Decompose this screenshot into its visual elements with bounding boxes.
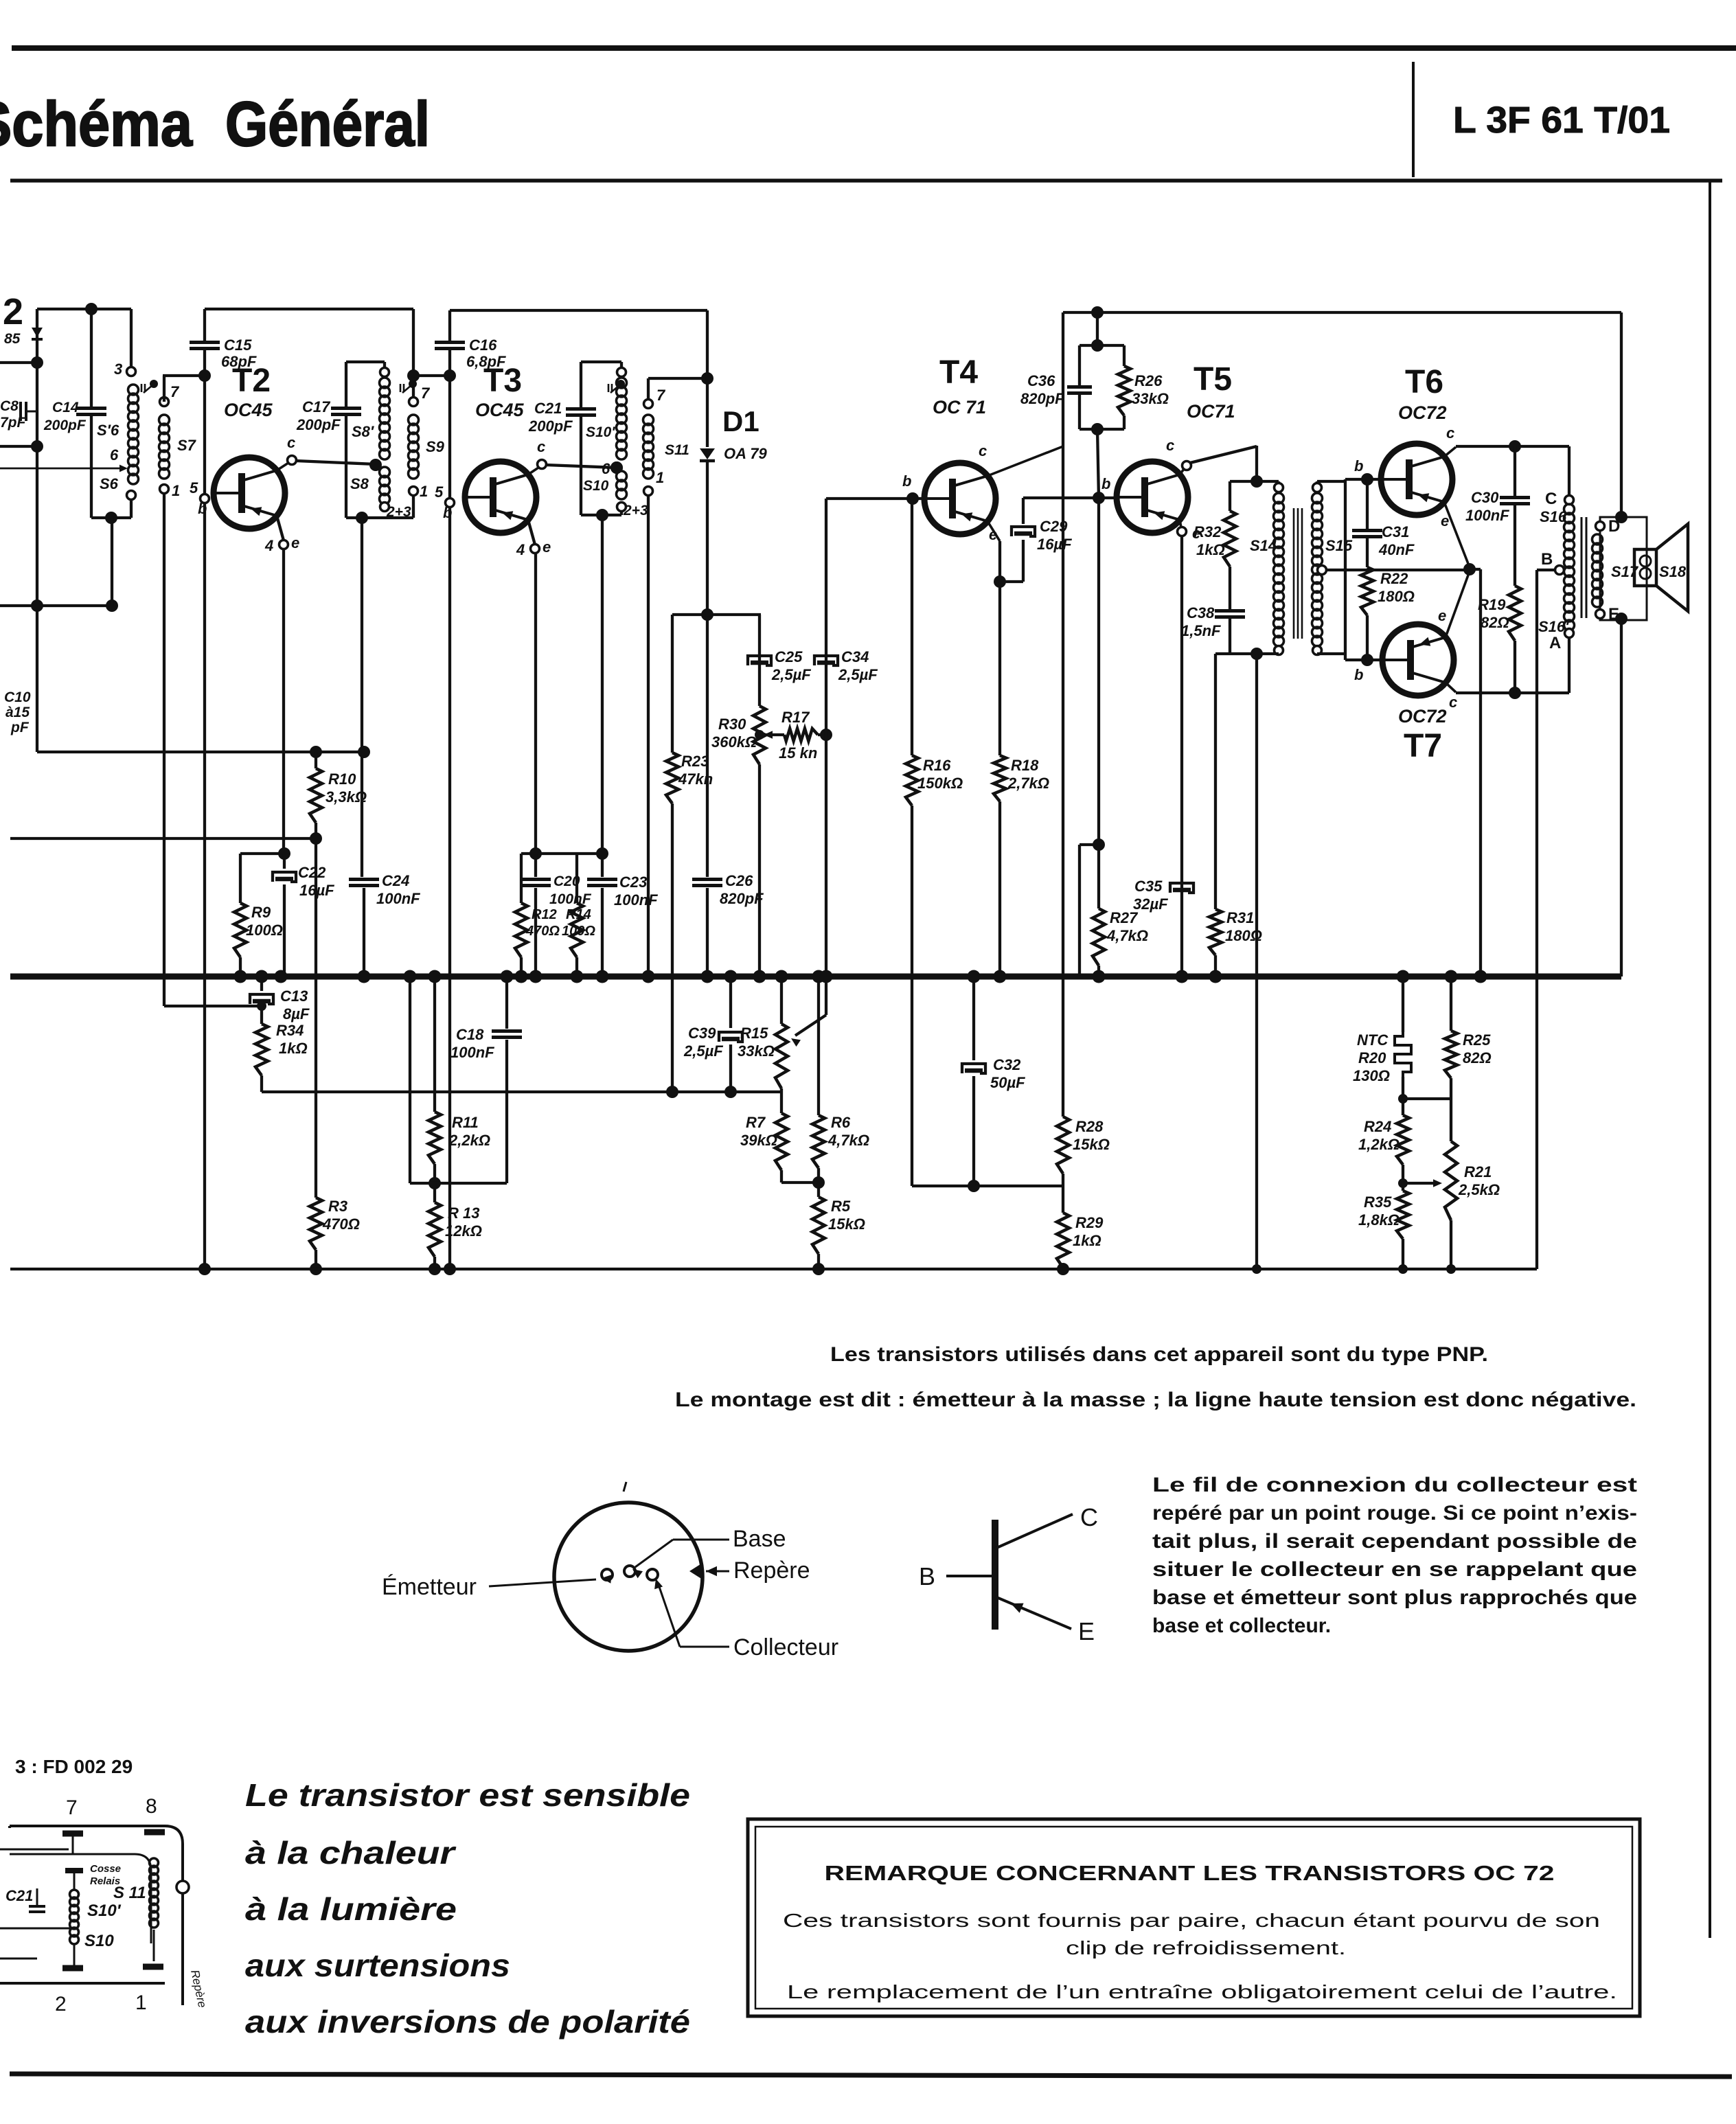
svg-text:130Ω: 130Ω (1353, 1067, 1390, 1084)
svg-text:1kΩ: 1kΩ (279, 1040, 308, 1057)
svg-text:C30: C30 (1471, 489, 1499, 506)
potentiometer R15 (780, 977, 783, 1024)
wiper arrow R21 (1403, 1182, 1437, 1185)
svg-text:c: c (1446, 424, 1454, 442)
svg-text:R15: R15 (740, 1025, 768, 1042)
svg-text:C21: C21 (5, 1887, 33, 1904)
svg-text:L 3F 61 T/01: L 3F 61 T/01 (1453, 100, 1670, 141)
svg-text:T7: T7 (1404, 728, 1442, 764)
svg-text:100nF: 100nF (376, 890, 420, 907)
svg-text:R31: R31 (1226, 909, 1254, 926)
wire emitter return (1470, 568, 1481, 571)
fragment inner outline (10, 1854, 151, 1943)
pinout pin emitter (602, 1569, 613, 1580)
svg-text:clip de refroidissement.: clip de refroidissement. (1066, 1937, 1346, 1959)
svg-text:16µF: 16µF (299, 882, 334, 899)
wire E drop (1615, 613, 1627, 625)
svg-text:S′6: S′6 (97, 422, 119, 439)
svg-text:100Ω: 100Ω (246, 922, 283, 939)
tuning slug S9 (400, 384, 402, 392)
svg-text:R19: R19 (1478, 596, 1506, 613)
symbol transistor B C E (992, 1520, 998, 1630)
svg-text:tait plus, il serait cependant: tait plus, il serait cependant possible … (1152, 1530, 1637, 1553)
svg-text:à15: à15 (5, 705, 30, 720)
svg-text:2,7kΩ: 2,7kΩ (1007, 775, 1049, 792)
wire y1221 (10, 837, 316, 840)
wire S8 box bottom (346, 516, 413, 519)
svg-text:R3: R3 (328, 1198, 347, 1215)
svg-text:S16′: S16′ (1538, 618, 1570, 635)
wire tap 6 arrow (0, 468, 124, 470)
svg-text:S10′: S10′ (87, 1902, 122, 1920)
svg-text:15 kn: 15 kn (779, 744, 817, 762)
resistor R7 (780, 1088, 783, 1113)
wire AGC y882 (0, 604, 112, 607)
wire S16 tap B (1555, 566, 1564, 575)
wire T7 collector (1446, 683, 1456, 692)
resistor R24 (1397, 1115, 1409, 1165)
svg-text:C26: C26 (725, 872, 753, 889)
svg-text:b: b (1354, 666, 1363, 683)
svg-text:1kΩ: 1kΩ (1196, 541, 1225, 558)
svg-text:C15: C15 (224, 336, 252, 354)
svg-text:C21: C21 (534, 400, 562, 417)
wire S10 box bottom (581, 514, 621, 516)
svg-text:Le transistor est sensible: Le transistor est sensible (245, 1777, 690, 1813)
resistor R29 (1062, 1186, 1064, 1213)
capacitor C15 (203, 309, 206, 341)
svg-text:C14: C14 (52, 400, 79, 415)
svg-text:2: 2 (55, 1993, 67, 2015)
coil S14 (1275, 483, 1283, 492)
svg-text:R5: R5 (831, 1198, 851, 1215)
fragment left wires (0, 1849, 69, 1851)
svg-text:R35: R35 (1364, 1194, 1392, 1211)
svg-text:1,2kΩ: 1,2kΩ (1358, 1136, 1400, 1153)
node T3 base (448, 376, 451, 497)
svg-text:R30: R30 (718, 716, 746, 733)
svg-text:Général: Général (225, 89, 430, 159)
svg-text:c: c (1166, 437, 1174, 454)
svg-text:pF: pF (10, 720, 30, 735)
node T3 collector (528, 468, 538, 475)
svg-text:2,5µF: 2,5µF (771, 666, 811, 683)
wire R9-C22 stub (240, 852, 284, 855)
svg-text:e: e (542, 538, 551, 556)
svg-text:e: e (1441, 512, 1449, 529)
svg-text:5: 5 (190, 479, 198, 496)
svg-text:R23: R23 (681, 753, 709, 770)
svg-text:7: 7 (421, 385, 431, 402)
svg-text:R11: R11 (452, 1114, 479, 1131)
node T2 base (203, 376, 206, 493)
svg-text:REMARQUE CONCERNANT LES TRANSI: REMARQUE CONCERNANT LES TRANSISTORS OC 7… (825, 1861, 1555, 1885)
svg-text:2+3: 2+3 (623, 503, 648, 518)
svg-text:2: 2 (3, 291, 23, 332)
svg-text:R6: R6 (831, 1114, 851, 1131)
svg-text:2,5µF: 2,5µF (838, 666, 878, 683)
capacitor C21 (581, 361, 621, 363)
resistor R22 (1361, 567, 1373, 615)
wire T2 base stub (163, 374, 205, 377)
capacitor C34 (814, 656, 838, 665)
wire left y528 (0, 361, 37, 364)
wire T2 emitter return (282, 549, 285, 854)
svg-text:b: b (1354, 457, 1363, 475)
svg-text:200pF: 200pF (528, 418, 573, 435)
fragment pad 8 top (144, 1829, 165, 1836)
capacitor C38 (1215, 609, 1245, 613)
svg-text:3 : FD 002 29: 3 : FD 002 29 (15, 1756, 133, 1777)
svg-text:4,7kΩ: 4,7kΩ (827, 1132, 869, 1149)
svg-text:S10: S10 (84, 1932, 114, 1950)
bottom rule (10, 2074, 1732, 2077)
capacitor C30 (1514, 446, 1516, 496)
svg-text:S10: S10 (583, 478, 609, 494)
svg-text:R18: R18 (1011, 757, 1039, 774)
svg-text:C16: C16 (469, 336, 497, 354)
svg-text:C22: C22 (298, 864, 326, 881)
svg-text:820pF: 820pF (720, 890, 764, 907)
capacitor C17 (346, 361, 385, 363)
fragment pad relais (65, 1868, 83, 1873)
svg-text:B: B (919, 1562, 935, 1590)
capacitor C25 (748, 656, 771, 665)
svg-text:OA 79: OA 79 (724, 445, 768, 462)
wire S15 top to T6 base (1344, 479, 1347, 481)
svg-text:base et émetteur sont plus rap: base et émetteur sont plus rapprochés qu… (1152, 1586, 1637, 1609)
svg-text:R17: R17 (781, 709, 810, 726)
wire T2 base drop (203, 503, 206, 1269)
svg-text:Ces transistors sont fournis p: Ces transistors sont fournis par paire, … (783, 1910, 1600, 1931)
wire T3 base stub (413, 374, 450, 377)
svg-text:A: A (1549, 634, 1561, 652)
transistor T5 (1117, 461, 1188, 533)
wire T5 base (1023, 496, 1117, 499)
svg-text:NTC: NTC (1357, 1031, 1389, 1049)
svg-text:aux surtensions: aux surtensions (245, 1948, 510, 1983)
svg-text:T5: T5 (1193, 361, 1232, 398)
svg-text:C34: C34 (841, 648, 869, 665)
capacitor C31 (1366, 479, 1369, 529)
wire NTC bottom (1403, 1097, 1451, 1100)
svg-text:OC72: OC72 (1398, 706, 1447, 727)
svg-text:4: 4 (264, 537, 273, 554)
wire T6 emitter (1444, 502, 1470, 567)
capacitor C36 (1080, 344, 1124, 347)
wire T2 box top (205, 308, 413, 310)
fragment terminal circle (176, 1881, 189, 1893)
resistor R32 (1229, 481, 1231, 511)
svg-text:4: 4 (516, 541, 525, 558)
svg-text:5: 5 (435, 483, 444, 501)
svg-text:T6: T6 (1405, 364, 1443, 400)
resistor R11 (433, 977, 436, 1112)
svg-text:R21: R21 (1464, 1163, 1492, 1180)
coil S16 (1568, 446, 1571, 496)
svg-text:Schéma: Schéma (0, 89, 193, 159)
svg-text:e: e (291, 534, 299, 551)
wire left y650 (0, 445, 37, 448)
wire T2 collector (296, 461, 376, 464)
svg-text:repéré par un point rouge. Si: repéré par un point rouge. Si ce point n… (1152, 1502, 1637, 1525)
svg-text:8µF: 8µF (283, 1005, 310, 1023)
page frame top rule (12, 45, 1736, 51)
svg-text:C35: C35 (1134, 878, 1163, 895)
svg-text:2,5kΩ: 2,5kΩ (1458, 1181, 1500, 1198)
resistor R6 (817, 977, 820, 1115)
svg-text:Base: Base (733, 1526, 786, 1552)
resistor R25 (1450, 977, 1452, 1031)
HT bus line (10, 974, 1621, 980)
svg-text:32µF: 32µF (1133, 895, 1168, 913)
svg-text:S8′: S8′ (352, 423, 375, 440)
svg-text:R34: R34 (276, 1022, 304, 1039)
svg-text:R9: R9 (251, 904, 271, 921)
svg-text:R7: R7 (746, 1114, 766, 1131)
coil S15 (1313, 483, 1322, 492)
wire S15 box right (1317, 480, 1345, 483)
svg-text:15kΩ: 15kΩ (1073, 1136, 1110, 1153)
svg-text:b: b (902, 472, 911, 490)
svg-text:S10′: S10′ (586, 424, 615, 440)
wire S15 bottom to T7 base (1344, 654, 1347, 660)
wire T3 collector (546, 465, 617, 468)
pinout pin collector (647, 1569, 658, 1580)
svg-text:OC 71: OC 71 (933, 397, 986, 418)
svg-text:S6: S6 (100, 475, 119, 492)
resistor R14 (575, 854, 578, 903)
svg-text:15kΩ: 15kΩ (828, 1215, 865, 1233)
svg-text:Les transistors utilisés dans: Les transistors utilisés dans cet appare… (830, 1343, 1488, 1366)
svg-text:S11: S11 (665, 442, 689, 458)
svg-text:1: 1 (656, 469, 664, 486)
secondary S17 box (1600, 517, 1647, 620)
resistor R23 (671, 615, 674, 753)
resistor R16 (911, 499, 913, 755)
transistor T3 (465, 461, 536, 533)
svg-text:100nF: 100nF (450, 1044, 494, 1061)
wire T3 box top (450, 309, 707, 312)
wire pair bottom (1080, 428, 1124, 431)
node T5 collector (1180, 469, 1184, 475)
pinout pin base (624, 1566, 635, 1577)
svg-text:S9: S9 (426, 438, 445, 455)
svg-text:1,8kΩ: 1,8kΩ (1358, 1211, 1400, 1229)
svg-text:S14: S14 (1250, 537, 1277, 554)
capacitor C18 (505, 977, 508, 1029)
svg-text:1kΩ: 1kΩ (1073, 1232, 1101, 1249)
capacitor C14 (90, 309, 93, 407)
svg-text:12kΩ: 12kΩ (445, 1222, 482, 1240)
resistor R9 (239, 854, 242, 903)
capacitor C32 (972, 977, 975, 1060)
svg-text:C8: C8 (0, 398, 19, 414)
wire S15 centre tap (1318, 566, 1327, 575)
node T3 emitter (528, 520, 535, 545)
capacitor C16 (448, 310, 451, 341)
svg-text:E: E (1078, 1617, 1095, 1645)
tuning slug S6 (141, 384, 143, 392)
capacitor C13 (260, 977, 263, 991)
svg-text:D1: D1 (722, 405, 759, 437)
svg-text:85: 85 (4, 331, 21, 347)
svg-text:R14: R14 (566, 907, 591, 922)
svg-text:C24: C24 (382, 872, 409, 889)
wire AGC y1095 (37, 751, 365, 753)
resistor R34 (260, 1006, 263, 1024)
svg-text:40nF: 40nF (1378, 541, 1415, 558)
diode D1 (706, 310, 709, 447)
coil S7 (160, 398, 169, 407)
transistor T7 (1382, 624, 1454, 696)
svg-text:Émetteur: Émetteur (382, 1574, 477, 1600)
svg-text:Cosse: Cosse (90, 1863, 121, 1875)
svg-text:T2: T2 (232, 363, 271, 399)
coil S9 (412, 309, 415, 402)
svg-text:39kΩ: 39kΩ (740, 1132, 777, 1149)
resistor R12 (520, 854, 523, 903)
node T5 emitter (1180, 520, 1181, 527)
svg-text:3,3kΩ: 3,3kΩ (325, 788, 367, 806)
svg-text:OC72: OC72 (1398, 402, 1447, 423)
capacitor C24 (361, 518, 363, 877)
transistor T4 (924, 463, 996, 534)
resistor R30 (758, 615, 761, 706)
svg-text:OC45: OC45 (475, 400, 525, 420)
svg-text:360kΩ: 360kΩ (711, 733, 757, 751)
svg-text:470Ω: 470Ω (525, 924, 560, 939)
svg-text:Le remplacement de l’un entraî: Le remplacement de l’un entraîne obligat… (787, 1981, 1617, 2002)
svg-text:S18: S18 (1659, 563, 1687, 580)
svg-text:C: C (1545, 490, 1557, 508)
svg-text:C17: C17 (302, 398, 331, 415)
svg-text:S8: S8 (350, 475, 369, 492)
svg-text:6: 6 (602, 460, 610, 477)
svg-text:82Ω: 82Ω (1463, 1049, 1492, 1066)
svg-text:C32: C32 (993, 1056, 1021, 1073)
wire T4 collector (987, 446, 1063, 476)
svg-text:C25: C25 (775, 648, 803, 665)
svg-text:C38: C38 (1187, 604, 1215, 621)
wire left box bottom (91, 516, 131, 519)
wire T5 collector (1190, 446, 1257, 463)
wire T3 emitter return (534, 553, 537, 854)
svg-text:7pF: 7pF (0, 415, 27, 431)
svg-text:Le montage est dit : émetteur: Le montage est dit : émetteur à la masse… (675, 1389, 1636, 1411)
svg-text:C31: C31 (1382, 523, 1409, 540)
svg-text:à la lumière: à la lumière (245, 1891, 457, 1927)
svg-text:R28: R28 (1075, 1118, 1104, 1135)
svg-text:b: b (1101, 475, 1110, 492)
svg-text:100Ω: 100Ω (562, 924, 595, 939)
bottom supply wire (10, 1268, 1537, 1270)
resistor R5 (812, 1197, 825, 1254)
svg-text:4,7kΩ: 4,7kΩ (1106, 927, 1148, 944)
wire T3 base bias drop (448, 507, 451, 1269)
svg-text:6: 6 (110, 446, 119, 464)
svg-text:C18: C18 (456, 1026, 484, 1043)
capacitor C35 (1170, 883, 1193, 893)
svg-text:1,5nF: 1,5nF (1181, 622, 1221, 639)
svg-text:e: e (989, 526, 997, 543)
svg-text:470Ω: 470Ω (322, 1215, 360, 1233)
svg-text:C29: C29 (1040, 518, 1068, 535)
potentiometer R17 (764, 731, 773, 739)
wire y1727 (912, 1185, 1063, 1187)
resistor R28 (1057, 1117, 1069, 1174)
svg-text:S7: S7 (177, 437, 197, 454)
svg-text:100nF: 100nF (1465, 507, 1509, 524)
wire volume line (825, 499, 827, 977)
svg-text:7: 7 (170, 383, 180, 400)
svg-text:3: 3 (114, 361, 122, 378)
node T2 collector (277, 463, 288, 470)
speaker S18 (1634, 549, 1656, 586)
wire T5 emitter (1180, 536, 1183, 977)
svg-text:1: 1 (135, 1991, 147, 2014)
thermistor NTC R20 (1402, 977, 1404, 1032)
coil S6 (130, 309, 133, 367)
wire pair feed (1096, 312, 1099, 345)
resistor R31 (1215, 652, 1230, 655)
wiper arrow R15 (825, 981, 827, 1015)
wire R12 stub y1243 (521, 852, 602, 855)
fragment pad 1 (143, 1964, 163, 1970)
svg-text:33kΩ: 33kΩ (738, 1042, 775, 1060)
svg-text:C13: C13 (280, 987, 308, 1005)
svg-text:C39: C39 (688, 1025, 716, 1042)
wire detector y895 (672, 613, 761, 616)
wire S14 box bottom (1230, 652, 1279, 655)
tuning slug S10 (608, 384, 610, 392)
fragment pad 7 top (62, 1831, 83, 1837)
svg-text:S 11: S 11 (113, 1884, 146, 1902)
wire S14 tap drop (1255, 654, 1258, 1269)
transformer core S16-S17 (1581, 517, 1583, 618)
wire top rail (1063, 311, 1621, 314)
svg-text:c: c (1449, 694, 1457, 711)
svg-text:R24: R24 (1364, 1118, 1391, 1135)
svg-text:R25: R25 (1463, 1031, 1491, 1049)
svg-text:50µF: 50µF (990, 1074, 1025, 1091)
svg-text:Collecteur: Collecteur (733, 1634, 838, 1660)
svg-text:C10: C10 (4, 689, 31, 705)
svg-text:R10: R10 (328, 770, 356, 788)
svg-text:e: e (1438, 607, 1446, 624)
fragment pad 2 (62, 1965, 83, 1972)
capacitor C29 (1000, 580, 1023, 583)
svg-text:aux inversions de polarité: aux inversions de polarité (245, 2004, 690, 2040)
svg-text:2,2kΩ: 2,2kΩ (448, 1132, 490, 1149)
pinout repere notch (689, 1563, 703, 1579)
svg-text:2,5µF: 2,5µF (683, 1042, 723, 1060)
svg-text:200pF: 200pF (43, 418, 87, 433)
svg-text:à la chaleur: à la chaleur (245, 1835, 457, 1871)
svg-text:R29: R29 (1075, 1214, 1104, 1231)
svg-text:180Ω: 180Ω (1225, 927, 1262, 944)
capacitor C20 (534, 854, 537, 877)
coil S11 (647, 378, 650, 400)
svg-text:Le fil de connexion du collect: Le fil de connexion du collecteur est (1152, 1474, 1637, 1496)
capacitor C26 (706, 615, 709, 877)
svg-text:OC45: OC45 (224, 400, 273, 420)
transistor T2 (214, 457, 285, 529)
wire T7 emitter (1446, 571, 1470, 637)
fragment coil S11 (150, 1858, 159, 1867)
svg-text:R32: R32 (1193, 523, 1222, 540)
svg-text:16µF: 16µF (1037, 536, 1072, 553)
